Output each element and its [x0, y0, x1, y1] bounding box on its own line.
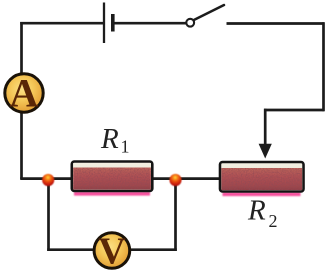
wire right vertical	[322, 22, 325, 111]
resistor R1	[72, 162, 153, 196]
wire main horizontal: left corner to R1	[20, 177, 73, 180]
wire left node down	[47, 180, 50, 251]
svg-text:R: R	[100, 123, 119, 155]
svg-text:A: A	[10, 71, 39, 116]
svg-text:V: V	[98, 231, 126, 273]
voltmeter V	[94, 231, 130, 273]
switch lever	[194, 5, 224, 20]
node right junction dot	[169, 174, 181, 186]
svg-text:1: 1	[121, 137, 130, 157]
arrowhead of rheostat wiper	[259, 144, 272, 159]
switch pivot circle	[186, 19, 194, 27]
battery short plate	[111, 14, 115, 32]
wire bottom horizontal	[47, 248, 177, 251]
wire left vertical (through ammeter)	[20, 22, 23, 179]
ammeter A	[5, 71, 43, 116]
wire wiper vertical	[264, 109, 267, 147]
wire R1 to R2 (through right node)	[150, 177, 221, 180]
wire battery to switch	[114, 22, 186, 25]
wire right node down	[174, 180, 177, 251]
node left junction dot	[42, 174, 54, 186]
wire switch to top-right corner	[227, 22, 325, 25]
svg-text:R: R	[247, 195, 266, 227]
svg-text:2: 2	[269, 211, 278, 231]
resistor R2 (rheostat)	[220, 162, 304, 196]
wire top horizontal to battery	[20, 22, 103, 25]
battery long plate	[103, 3, 105, 44]
wire horizontal to wiper	[264, 109, 324, 112]
